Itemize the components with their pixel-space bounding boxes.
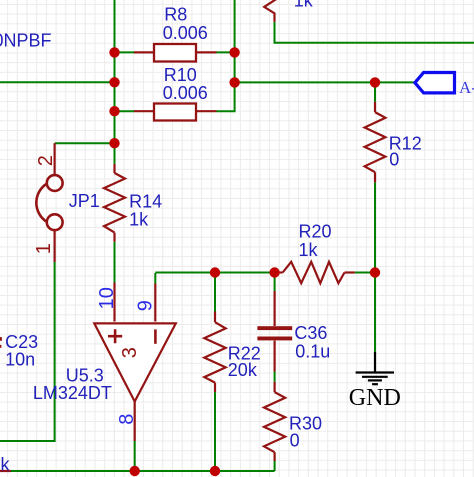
svg-text:8: 8 [116,414,138,425]
svg-text:0: 0 [389,150,399,170]
svg-text:0.006: 0.006 [163,23,208,43]
svg-text:LM324DT: LM324DT [33,383,112,403]
svg-text:C36: C36 [294,323,327,343]
svg-text:0NPBF: 0NPBF [0,30,52,50]
svg-text:R8: R8 [164,4,187,24]
svg-text:k: k [1,454,11,474]
svg-text:20k: 20k [228,360,258,380]
svg-text:0.1u: 0.1u [295,342,330,362]
svg-text:10: 10 [96,287,118,309]
svg-text:1k: 1k [294,0,314,11]
svg-text:JP1: JP1 [69,191,100,211]
svg-text:1k: 1k [299,240,319,260]
svg-text:1: 1 [33,243,55,254]
svg-text:9: 9 [135,300,157,311]
svg-text:A-: A- [459,78,474,97]
svg-text:R20: R20 [299,221,332,241]
svg-text:0: 0 [290,431,300,451]
svg-text:0.006: 0.006 [163,83,208,103]
svg-text:1k: 1k [129,209,149,229]
svg-text:2: 2 [35,155,57,166]
svg-text:R14: R14 [129,191,162,211]
svg-text:GND: GND [349,385,401,411]
svg-text:10n: 10n [5,350,35,370]
svg-text:3: 3 [119,347,141,358]
